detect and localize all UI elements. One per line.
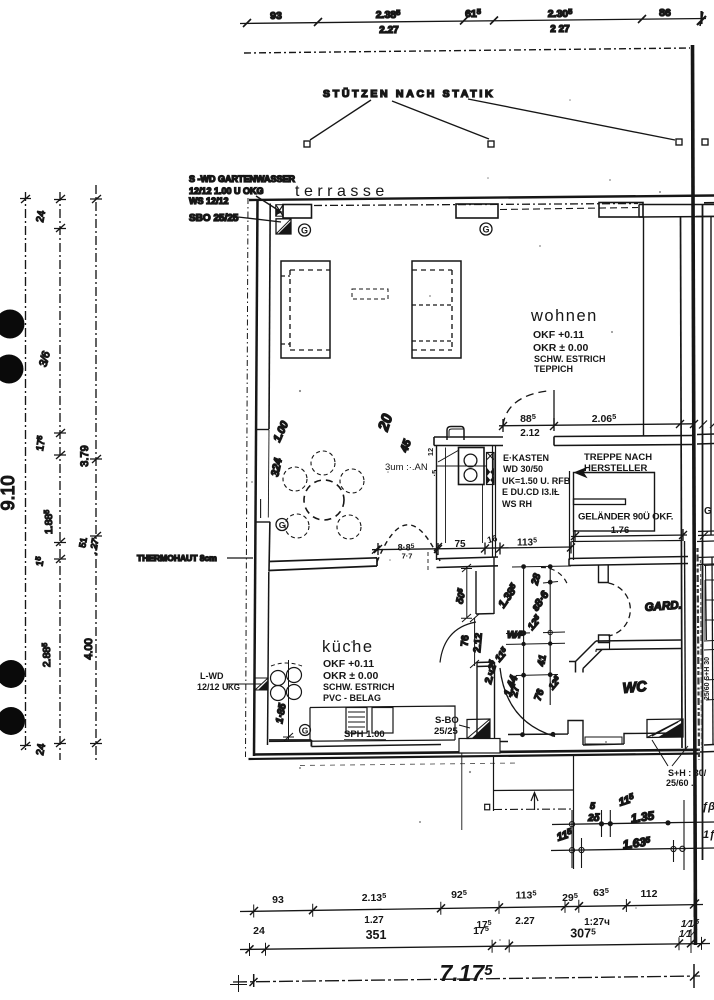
neighbor wall stubs bbox=[704, 565, 714, 700]
stair outline rect bbox=[574, 473, 655, 532]
sofa right seat dashes bbox=[412, 305, 452, 341]
left wall main line bbox=[254, 200, 258, 756]
svg-text:2.885: 2.885 bbox=[41, 643, 53, 667]
svg-text:4.00: 4.00 bbox=[83, 638, 95, 659]
SECTION: stuetzen bbox=[304, 87, 708, 147]
stair direction arrow bbox=[575, 468, 655, 477]
svg-text:3.79: 3.79 bbox=[79, 445, 91, 466]
svg-text:45: 45 bbox=[398, 437, 414, 454]
stove side guide lines bbox=[446, 448, 483, 544]
kitchen right wall lower bbox=[477, 662, 495, 739]
tick y582 bbox=[543, 582, 558, 584]
sofa left outline bbox=[281, 261, 330, 358]
circled G left bbox=[299, 224, 311, 236]
window sill 1 bbox=[283, 205, 312, 219]
leader to post 1 bbox=[310, 100, 371, 140]
svg-text:TREPPE NACH: TREPPE NACH bbox=[584, 452, 652, 463]
svg-text:wohnen: wohnen bbox=[530, 307, 598, 325]
sofa left inner dashed bbox=[290, 270, 330, 350]
SECTION: top dimension chain bbox=[240, 7, 706, 53]
bottom dim row 3 line bbox=[233, 976, 700, 982]
door leaf line bbox=[553, 390, 555, 426]
S+H leader V bbox=[652, 740, 688, 766]
dimension line top bbox=[240, 19, 706, 24]
svg-text:OKR ± 0.00: OKR ± 0.00 bbox=[323, 670, 379, 682]
chair dashed 3 bbox=[340, 469, 364, 493]
leader to post 3 bbox=[468, 99, 675, 140]
kitchen counter front left bbox=[269, 740, 311, 747]
stair dim ticks bbox=[571, 529, 687, 542]
construction line A bbox=[523, 565, 525, 736]
svg-text:SPH 1.00: SPH 1.00 bbox=[344, 729, 385, 740]
circled G kitchen bbox=[300, 725, 311, 736]
svg-text:75: 75 bbox=[454, 539, 466, 550]
neighbor vertical construction lines bbox=[674, 800, 685, 870]
dashed property line bbox=[244, 48, 690, 53]
svg-text:20: 20 bbox=[375, 411, 397, 434]
svg-text:, 27: , 27 bbox=[88, 537, 101, 554]
post 2 bbox=[488, 141, 494, 147]
row2 ticks bbox=[246, 939, 706, 953]
SBO marker box bbox=[276, 219, 291, 234]
sofa right outline bbox=[412, 261, 461, 358]
step arrow bbox=[531, 793, 538, 811]
svg-text:93: 93 bbox=[272, 894, 284, 906]
svg-text:635: 635 bbox=[593, 886, 609, 899]
leader to post 2 bbox=[392, 101, 489, 139]
stair bottom wall band bbox=[569, 557, 688, 566]
stair dim line 1.76 bbox=[571, 535, 687, 537]
svg-text:GELÄNDER 90Ü OKF.: GELÄNDER 90Ü OKF. bbox=[578, 512, 673, 523]
nodes line 1 bbox=[569, 822, 574, 827]
gard door dashed semicircle bbox=[609, 583, 631, 636]
svg-text:24: 24 bbox=[34, 210, 48, 224]
boiler small box bbox=[447, 427, 464, 441]
tick row y632 bbox=[506, 632, 565, 634]
ticks line3 bbox=[90, 195, 102, 747]
svg-text:SCHW. ESTRICH: SCHW. ESTRICH bbox=[323, 682, 395, 692]
svg-text:175: 175 bbox=[473, 924, 489, 937]
party wall thick line bbox=[693, 45, 696, 945]
svg-text:2.305: 2.305 bbox=[548, 7, 573, 20]
stove mid line bbox=[437, 465, 487, 467]
svg-text:24: 24 bbox=[34, 743, 48, 757]
post 4 bbox=[702, 139, 708, 145]
vertical dim line 2 bbox=[59, 192, 61, 760]
counter front line bbox=[269, 740, 455, 742]
svg-text:1135: 1135 bbox=[515, 889, 536, 902]
svg-text:L-WD: L-WD bbox=[200, 671, 224, 681]
svg-text:terrasse: terrasse bbox=[295, 183, 389, 200]
sofa left seat dashes bbox=[281, 276, 290, 344]
svg-text:2.065: 2.065 bbox=[592, 412, 617, 425]
svg-text:25/25: 25/25 bbox=[434, 726, 458, 737]
SECTION: flur bbox=[483, 564, 571, 737]
svg-text:OKR ± 0.00: OKR ± 0.00 bbox=[533, 342, 589, 354]
node dots top bbox=[521, 564, 526, 569]
row3 ticks bbox=[250, 964, 700, 988]
svg-text:S+H : 30/: S+H : 30/ bbox=[668, 768, 707, 778]
leader SBO to marker bbox=[238, 217, 281, 222]
svg-text:7.175: 7.175 bbox=[439, 960, 493, 986]
gard stub bottom bbox=[599, 635, 610, 643]
terrace dashed outline left bbox=[246, 198, 249, 757]
SECTION: stairs bbox=[569, 452, 688, 566]
chair dashed 4 bbox=[285, 514, 309, 538]
dishwasher hatched box bbox=[346, 708, 367, 734]
window glazing line bbox=[267, 430, 270, 518]
hole punch 2 bbox=[0, 355, 24, 384]
svg-text:ε8·6: ε8·6 bbox=[530, 588, 552, 613]
kitchen inner wall line left bbox=[268, 572, 269, 746]
chair dashed 2 bbox=[311, 451, 335, 475]
post 1 bbox=[304, 141, 310, 147]
svg-text:3075: 3075 bbox=[570, 927, 596, 941]
construction line B bbox=[549, 565, 551, 705]
svg-text:OKF +0.11: OKF +0.11 bbox=[533, 329, 584, 341]
S-BO box bbox=[467, 719, 490, 739]
small square left of steps bbox=[485, 804, 490, 810]
pavement dashed line bbox=[300, 763, 520, 766]
svg-text:76: 76 bbox=[460, 634, 472, 646]
svg-text:WC: WC bbox=[622, 679, 648, 697]
party wall T top bbox=[639, 205, 714, 218]
svg-text:2.385: 2.385 bbox=[376, 8, 401, 21]
dim ticks top bbox=[243, 12, 703, 27]
svg-text:1ƒ: 1ƒ bbox=[703, 829, 714, 841]
sink box bbox=[372, 708, 393, 734]
neighbor hatch band bbox=[698, 548, 700, 760]
svg-text:G: G bbox=[482, 225, 489, 235]
kitchen right wall upper bbox=[476, 557, 494, 614]
dining table bbox=[304, 480, 344, 520]
svg-text:1·85: 1·85 bbox=[274, 702, 288, 724]
mid dim ticks bbox=[374, 542, 575, 556]
svg-text:3um :·.AN: 3um :·.AN bbox=[385, 462, 428, 473]
thermohaut leader bbox=[227, 557, 253, 559]
hole punch 3 bbox=[0, 660, 25, 688]
svg-text:15: 15 bbox=[34, 556, 46, 567]
svg-text:885: 885 bbox=[520, 412, 536, 425]
svg-text:1.385: 1.385 bbox=[495, 581, 521, 610]
neighbor mid wall lines bbox=[697, 434, 714, 444]
svg-text:WS RH: WS RH bbox=[502, 499, 532, 509]
svg-text:16: 16 bbox=[486, 533, 498, 545]
arch dim ticks bbox=[372, 543, 442, 554]
chair dashed 5 bbox=[337, 515, 361, 539]
svg-text:1.885: 1.885 bbox=[43, 510, 55, 534]
stove ring 2 bbox=[464, 469, 477, 482]
ticks line2 bbox=[54, 195, 66, 747]
svg-text:2.135: 2.135 bbox=[362, 891, 387, 904]
svg-text:TEPPICH: TEPPICH bbox=[534, 364, 573, 374]
kitchen door arc bbox=[440, 622, 476, 663]
row1 ticks bbox=[250, 900, 699, 916]
svg-text:2.12: 2.12 bbox=[520, 428, 540, 439]
svg-text:41: 41 bbox=[536, 654, 549, 668]
svg-text:2.27: 2.27 bbox=[515, 916, 535, 927]
neighbor top wall lines bbox=[696, 215, 714, 217]
dim chain mid y546 bbox=[372, 547, 572, 550]
left wall inner line upper bbox=[269, 204, 270, 430]
svg-text:2 27: 2 27 bbox=[550, 24, 570, 35]
chair dashed 1 bbox=[283, 467, 307, 491]
svg-text:615: 615 bbox=[465, 7, 481, 20]
svg-text:2.27: 2.27 bbox=[379, 25, 399, 36]
step tread line bbox=[494, 789, 574, 792]
window sill 3 bbox=[599, 203, 643, 218]
flur tick line top bbox=[512, 566, 571, 567]
svg-text:G: G bbox=[279, 520, 286, 530]
steps right construction line bbox=[573, 755, 575, 870]
window sill step lower bbox=[256, 521, 271, 523]
svg-text:28: 28 bbox=[530, 572, 544, 587]
svg-text:küche: küche bbox=[322, 638, 374, 656]
SECTION: midwalls bbox=[269, 427, 692, 573]
niche right wall lines bbox=[493, 446, 496, 558]
neighbor gelaender dim tick bbox=[700, 532, 708, 540]
svg-text:2.ч25: 2.ч25 bbox=[483, 659, 500, 686]
neighbor stair lines bbox=[697, 531, 714, 565]
bottom dim row 2 line bbox=[240, 944, 710, 950]
inner wall segment lower bbox=[268, 522, 271, 571]
niche left wall line bbox=[436, 446, 438, 561]
table dashed bits bbox=[271, 663, 302, 666]
svg-text:125: 125 bbox=[526, 614, 544, 633]
stove diagonal bbox=[438, 450, 459, 462]
bottom dim row 1 line bbox=[240, 905, 703, 912]
S-BO leader bbox=[459, 725, 470, 728]
top window dash line b bbox=[500, 208, 638, 210]
svg-text:925: 925 bbox=[451, 888, 467, 901]
circled G mid bbox=[480, 223, 492, 235]
svg-text:76: 76 bbox=[533, 688, 547, 703]
wohnen right wall line b bbox=[681, 217, 683, 748]
S-WD marker cross box bbox=[276, 205, 284, 217]
wc inner step lines bbox=[596, 643, 610, 653]
SECTION: outer walls bbox=[189, 45, 714, 945]
bottom wall mid line bbox=[253, 750, 700, 755]
svg-text:SCHW. ESTRICH: SCHW. ESTRICH bbox=[534, 354, 606, 364]
ticks line1 bbox=[20, 195, 31, 750]
svg-text:1.27: 1.27 bbox=[364, 915, 384, 926]
svg-text:25/60 S+H 30: 25/60 S+H 30 bbox=[704, 657, 711, 700]
door wohnen-flur arc bbox=[503, 391, 551, 426]
kitchen table chairs bbox=[271, 671, 286, 686]
svg-text:OKF +0.11: OKF +0.11 bbox=[323, 658, 374, 670]
wc diagonal wall bbox=[569, 641, 602, 673]
kitchen top wall band bbox=[269, 558, 377, 571]
svg-text:PVC - BELAG: PVC - BELAG bbox=[323, 693, 381, 703]
SECTION: bottom dims bbox=[230, 886, 710, 992]
svg-text:SBO 25/25: SBO 25/25 bbox=[189, 213, 239, 224]
S-BO pedestal white block bbox=[459, 739, 500, 754]
dashdot door line kitchen bbox=[427, 552, 429, 572]
dim 80_5 vertical bbox=[461, 564, 472, 622]
svg-text:G: G bbox=[704, 506, 712, 517]
svg-text:1.00: 1.00 bbox=[271, 419, 291, 444]
gard bottom wall band bbox=[596, 640, 681, 650]
hole punch 4 bbox=[0, 707, 25, 735]
SECTION: right strip bbox=[671, 203, 714, 870]
svg-text:51: 51 bbox=[77, 537, 89, 549]
svg-text:S -WD GARTENWASSER: S -WD GARTENWASSER bbox=[189, 174, 296, 184]
svg-text:E·KASTEN: E·KASTEN bbox=[503, 453, 549, 463]
gard stub top bbox=[599, 566, 609, 583]
svg-text:·5: ·5 bbox=[430, 470, 439, 477]
svg-text:25/60 .: 25/60 . bbox=[666, 778, 694, 788]
svg-text:12/12 U: 12/12 U bbox=[197, 682, 229, 692]
stove ring 1 bbox=[464, 454, 477, 467]
neighbor inner wall line bbox=[710, 217, 712, 535]
bottom wall outer line bbox=[249, 754, 701, 760]
scan speckles bbox=[251, 99, 661, 941]
svg-text:THERMOHAUT 8cm: THERMOHAUT 8cm bbox=[137, 553, 217, 563]
top wall outer line bbox=[249, 196, 714, 201]
window sill 2 bbox=[456, 204, 498, 218]
stove unit rect bbox=[459, 448, 485, 485]
node dots bottom bbox=[520, 732, 525, 737]
stair bottom step band bbox=[572, 541, 682, 542]
neighbor inner wall verticals bbox=[712, 557, 713, 745]
bottom wall inner line right bbox=[499, 721, 680, 746]
svg-text:324: 324 bbox=[269, 457, 285, 477]
SECTION: bottom entry bbox=[300, 754, 714, 870]
vertical dim line 1 (9.10) bbox=[25, 192, 27, 752]
tick row y643 bbox=[506, 643, 565, 644]
step dashdot bottom bbox=[494, 808, 572, 811]
wall wohnen/flur left segment bbox=[434, 437, 503, 446]
door dim ticks bbox=[499, 418, 698, 432]
row3 left cross bbox=[230, 975, 247, 992]
window mullion short bbox=[260, 499, 262, 518]
SECTION: kitchen bbox=[197, 557, 500, 753]
wohnen right wall line a bbox=[643, 217, 645, 436]
neighbor dim ticks mid bbox=[699, 420, 714, 429]
right edge window rect top bbox=[704, 202, 714, 204]
svg-text:3/6: 3/6 bbox=[37, 349, 53, 368]
svg-text:9.10: 9.10 bbox=[0, 475, 18, 510]
coffee table dashed bbox=[352, 289, 388, 299]
svg-text:351: 351 bbox=[366, 928, 387, 942]
stair left wall bbox=[570, 471, 574, 560]
svg-text:115: 115 bbox=[617, 791, 637, 808]
svg-text:G: G bbox=[302, 726, 309, 736]
top window dashdot line bbox=[314, 204, 638, 206]
wc right wall inner bbox=[685, 541, 686, 750]
svg-text:UK=1.50 U. RFB: UK=1.50 U. RFB bbox=[502, 476, 571, 486]
neighbor wall bottom bbox=[700, 745, 714, 753]
nodes line 2 bbox=[569, 848, 574, 853]
svg-text:295: 295 bbox=[562, 891, 578, 904]
entrance sill rect bbox=[585, 737, 622, 744]
svg-text:5: 5 bbox=[590, 801, 596, 811]
svg-text:WS 12/12: WS 12/12 bbox=[189, 196, 229, 206]
sofa right inner dashed bbox=[412, 270, 452, 350]
construction line x462 bbox=[461, 754, 463, 831]
dashed door arc stair hall bbox=[541, 567, 568, 586]
svg-text:1.76: 1.76 bbox=[611, 525, 630, 536]
vertical dim line 3 bbox=[95, 185, 97, 760]
left wall recess step bbox=[257, 429, 269, 431]
svg-text:112: 112 bbox=[641, 888, 658, 900]
svg-text:WD 30/50: WD 30/50 bbox=[503, 464, 543, 474]
svg-text:12/12 1.00 U OKG: 12/12 1.00 U OKG bbox=[189, 186, 264, 196]
kitchen door arch dashed bbox=[377, 525, 440, 562]
S+H schacht box bbox=[647, 719, 683, 738]
post 3 bbox=[676, 139, 682, 145]
handrail bar bbox=[574, 499, 626, 505]
wall niche bottom band bbox=[437, 557, 499, 568]
L-WD marker bbox=[255, 678, 268, 690]
circled G dining bbox=[276, 519, 288, 531]
svg-text:2.12: 2.12 bbox=[472, 632, 485, 653]
svg-text:2δ: 2δ bbox=[587, 813, 601, 824]
SECTION: wohnen bbox=[269, 261, 698, 539]
SECTION: left dimension chains bbox=[0, 185, 253, 760]
SECTION: gard/wc bbox=[541, 541, 707, 788]
door dim line bbox=[499, 424, 694, 426]
neighbor small boxes bbox=[705, 580, 714, 640]
svg-text:ƒβ: ƒβ bbox=[702, 801, 714, 813]
tick row y674 bbox=[516, 675, 558, 676]
hw dim line 2 bbox=[551, 848, 714, 851]
L-WD leader bbox=[226, 683, 262, 685]
ekasten dark box bbox=[487, 453, 495, 485]
svg-text:12: 12 bbox=[426, 448, 435, 456]
entry door arc bbox=[500, 668, 555, 737]
svg-text:S-BO: S-BO bbox=[435, 715, 459, 726]
vertical dim kitchen table bbox=[283, 660, 294, 741]
counter outline bbox=[310, 706, 455, 740]
svg-text:7·7: 7·7 bbox=[402, 552, 413, 561]
svg-text:G: G bbox=[301, 226, 308, 236]
kitchen door dim vertical bbox=[470, 614, 479, 668]
svg-text:93: 93 bbox=[270, 10, 282, 22]
svg-text:24: 24 bbox=[253, 925, 265, 937]
svg-text:GARD.: GARD. bbox=[644, 599, 682, 614]
hole punch 1 bbox=[0, 310, 25, 339]
svg-text:STÜTZEN NACH STATIK: STÜTZEN NACH STATIK bbox=[323, 87, 495, 100]
hw dim line 1 bbox=[552, 822, 714, 825]
bottom wall inner line kitchen bbox=[311, 745, 441, 747]
party wall neighbor line bbox=[702, 205, 704, 860]
svg-text:175: 175 bbox=[35, 435, 48, 452]
leader OKG to marker bbox=[256, 196, 280, 211]
svg-text:86: 86 bbox=[659, 7, 671, 19]
steps left edge bbox=[493, 756, 495, 812]
svg-text:E DU.CD І3.ІȽ: E DU.CD І3.ІȽ bbox=[502, 487, 560, 497]
svg-text:125: 125 bbox=[546, 674, 563, 691]
wall wohnen/flur right segment bbox=[554, 436, 692, 446]
